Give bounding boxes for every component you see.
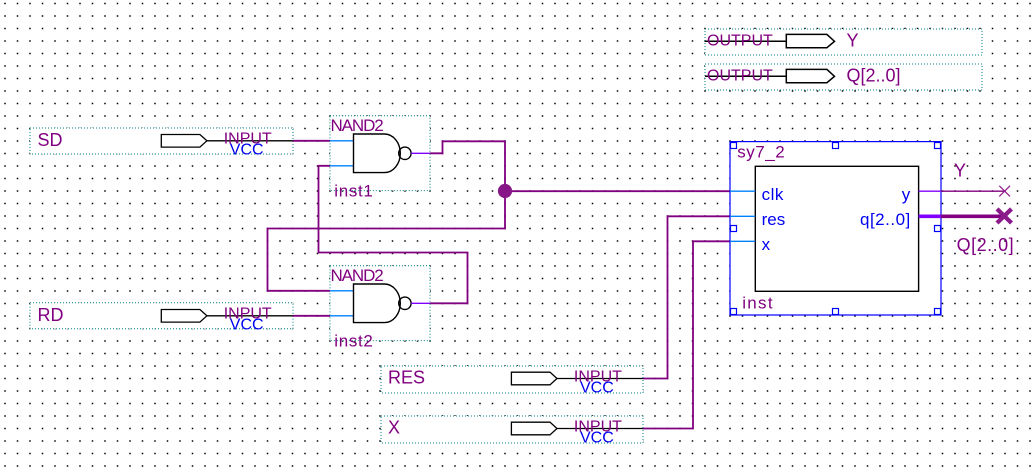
output pin Q[2..0]: [705, 64, 982, 90]
svg-text:VCC: VCC: [580, 379, 614, 396]
svg-text:OUTPUT: OUTPUT: [707, 68, 773, 85]
wire RES to res: [643, 216, 730, 378]
svg-text:sy7_2: sy7_2: [737, 142, 785, 161]
svg-text:RES: RES: [388, 368, 425, 388]
NAND2 gate inst2: [330, 266, 430, 351]
block U1 sy7_2 (inst): [730, 142, 941, 315]
svg-text:VCC: VCC: [580, 429, 614, 446]
wire y output: [941, 190, 1005, 192]
bus q[2..0] output: [941, 215, 1004, 219]
unconnected marker q: [997, 209, 1012, 223]
wire inst2 output to inst1 input B: [319, 166, 468, 303]
input pin RD: [30, 303, 293, 334]
svg-text:NAND2: NAND2: [331, 116, 384, 135]
svg-text:clk: clk: [762, 185, 784, 204]
svg-text:Q[2..0]: Q[2..0]: [847, 65, 901, 85]
svg-text:res: res: [762, 210, 786, 229]
wire RD to inst2 input B: [293, 315, 330, 317]
input pin RES: [381, 366, 643, 396]
wire inst1 output to inst2 input A: [268, 141, 506, 290]
wire X to x: [643, 241, 730, 428]
svg-text:inst1: inst1: [334, 182, 373, 201]
NAND2 gate inst1: [330, 116, 430, 201]
svg-text:inst2: inst2: [334, 332, 373, 351]
svg-text:Q[2..0]: Q[2..0]: [957, 235, 1015, 255]
svg-text:y: y: [902, 185, 911, 204]
input pin SD: [30, 128, 293, 159]
svg-text:SD: SD: [38, 130, 63, 150]
svg-text:inst: inst: [742, 294, 774, 313]
output pin Y: [705, 29, 982, 55]
svg-text:x: x: [762, 235, 771, 254]
svg-text:RD: RD: [38, 305, 64, 325]
wire SD to inst1 input A: [293, 140, 330, 142]
svg-text:Y: Y: [954, 160, 966, 180]
svg-text:VCC: VCC: [230, 317, 264, 334]
svg-text:X: X: [388, 418, 400, 438]
svg-text:Y: Y: [847, 30, 859, 50]
svg-text:q[2..0]: q[2..0]: [860, 210, 911, 229]
input pin X: [381, 416, 643, 446]
unconnected marker y: [999, 186, 1010, 197]
junction dot: [498, 184, 512, 198]
svg-text:NAND2: NAND2: [331, 266, 384, 285]
svg-text:OUTPUT: OUTPUT: [707, 33, 773, 50]
wire junction to clk: [505, 190, 730, 192]
svg-text:VCC: VCC: [230, 142, 264, 159]
